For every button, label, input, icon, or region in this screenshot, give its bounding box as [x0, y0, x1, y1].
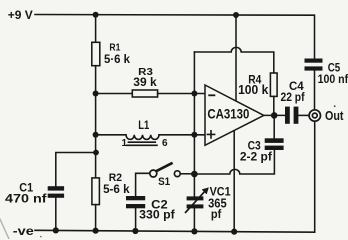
wire VC1 top — [193, 174, 195, 196]
variable capacitor VC1 — [187, 196, 204, 208]
svg-text:1: 1 — [122, 138, 128, 149]
op-amp minus symbol — [208, 94, 215, 96]
capacitor C1 — [48, 186, 64, 198]
capacitor C5 — [305, 59, 323, 71]
wire VC1 bottom — [193, 208, 195, 231]
svg-text:39 k: 39 k — [133, 77, 157, 89]
svg-text:5·6 k: 5·6 k — [104, 52, 130, 66]
switch S1 — [150, 163, 180, 177]
wire left column bottom — [95, 205, 97, 231]
wire R4 bottom to output node — [273, 96, 275, 115]
capacitor C2 — [126, 196, 145, 208]
variable capacitor VC1 arrow — [185, 188, 209, 213]
wire C1 branch horizontal — [56, 153, 96, 187]
resistor R1 — [92, 42, 100, 65]
svg-text:100 k: 100 k — [238, 83, 268, 97]
wire C5 to Out jack ground — [314, 71, 316, 233]
wire R3 right to op-amp minus input — [158, 93, 205, 95]
scan speck below -ve rail — [40, 236, 42, 238]
wire R3 left — [96, 93, 133, 95]
svg-text:330 pf: 330 pf — [139, 210, 175, 222]
wire left column R1 top — [95, 15, 97, 43]
wire plus input column — [193, 52, 195, 174]
wire switch S1 to node — [180, 173, 194, 175]
svg-text:+9 V: +9 V — [8, 10, 33, 22]
svg-text:2-2 pf: 2-2 pf — [240, 150, 273, 164]
op-amp U1 CA3130 — [205, 85, 264, 145]
svg-text:5-6 k: 5-6 k — [103, 182, 130, 196]
svg-text:470 nf: 470 nf — [5, 191, 48, 205]
wire C3 top — [273, 115, 275, 138]
wire V+ supply to op-amp — [235, 15, 237, 101]
resistor R4 — [270, 73, 277, 96]
svg-text:22 pf: 22 pf — [281, 92, 305, 104]
wire L1 right to op-amp plus input — [159, 134, 205, 136]
wire feedback line with hop over V+ line — [194, 47, 273, 73]
svg-text:CA3130: CA3130 — [207, 107, 249, 122]
wire C3 bottom return with hop over V- line — [194, 150, 274, 174]
wire L1 left — [96, 134, 126, 136]
output jack Out — [309, 110, 320, 121]
scan streak bottom-left corner — [0, 217, 9, 239]
wire V- supply from op-amp to bottom rail — [233, 130, 235, 232]
svg-text:-ve: -ve — [13, 224, 34, 238]
wire +9V top rail — [35, 15, 315, 59]
svg-text:L1: L1 — [138, 120, 149, 132]
svg-text:6: 6 — [162, 138, 168, 149]
wire -ve bottom rail — [35, 230, 315, 232]
capacitor C3 — [265, 138, 284, 150]
wire C4 to Out jack — [298, 114, 308, 116]
wire C2 bottom — [135, 208, 137, 231]
inductor L1 — [126, 135, 159, 140]
wire C1 bottom — [55, 198, 57, 231]
svg-text:Out: Out — [325, 108, 344, 123]
resistor R2 — [92, 178, 100, 205]
wire output to C4 — [264, 114, 285, 116]
op-amp plus symbol — [207, 130, 216, 139]
inductor L1 core — [127, 142, 157, 145]
resistor R3 — [132, 90, 157, 97]
svg-text:S1: S1 — [158, 176, 170, 188]
capacitor C4 — [285, 107, 298, 124]
svg-text:pf: pf — [211, 207, 222, 221]
svg-text:100 nf: 100 nf — [318, 72, 348, 86]
wire C2 top riser to switch — [136, 173, 150, 196]
wire left column middle — [95, 66, 97, 178]
scan speck above Out — [334, 105, 336, 107]
